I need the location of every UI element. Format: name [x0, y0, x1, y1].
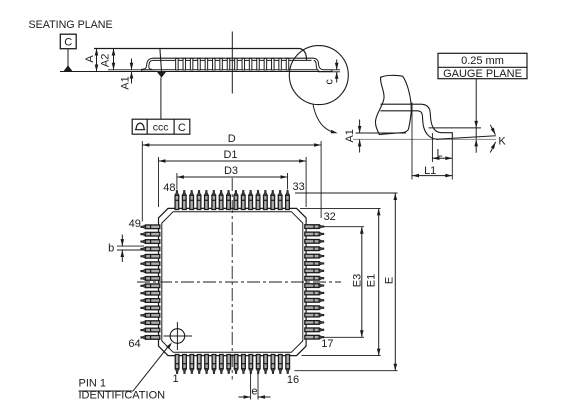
svg-text:16: 16 [287, 374, 299, 386]
gauge plane leader [475, 79, 477, 153]
dimension L [431, 133, 433, 162]
pin 1 leader arrow [79, 390, 134, 392]
pins 32-17 right side [305, 225, 324, 339]
detail lead outline [381, 104, 453, 139]
side view right end lead [314, 58, 332, 72]
pins 1-16 bottom side [175, 355, 289, 374]
top view vertical centerline [231, 178, 233, 380]
dimension E [295, 192, 398, 194]
dimension E3 [323, 226, 365, 228]
svg-text:ccc: ccc [153, 122, 169, 134]
svg-text:L: L [436, 148, 442, 160]
svg-text:49: 49 [129, 218, 141, 230]
svg-text:GAUGE PLANE: GAUGE PLANE [443, 68, 522, 80]
dimension D [141, 141, 143, 222]
side view body bottom line [146, 69, 318, 71]
seating plane line [60, 71, 332, 73]
top view horizontal centerline [137, 281, 341, 283]
svg-text:A1: A1 [344, 129, 356, 142]
svg-text:A2: A2 [99, 54, 111, 67]
ccc datum triangle [157, 72, 166, 78]
svg-text:c: c [323, 79, 335, 85]
dimension A1 side view [131, 59, 133, 70]
detail body blob [375, 75, 411, 134]
svg-text:L1: L1 [424, 165, 436, 177]
svg-text:A1: A1 [119, 76, 131, 89]
svg-text:D3: D3 [224, 165, 238, 177]
dimension D3 [176, 173, 178, 190]
package body inner edge [162, 212, 303, 353]
svg-text:17: 17 [321, 338, 333, 350]
dimension D1 [158, 157, 160, 207]
dimension e [250, 373, 252, 400]
package body outline [159, 208, 307, 355]
svg-text:E1: E1 [366, 274, 378, 287]
gauge plane box [438, 53, 527, 78]
svg-text:IDENTIFICATION: IDENTIFICATION [79, 390, 166, 402]
datum C leader and triangle [67, 49, 69, 66]
pins 48-33 top side [175, 191, 289, 210]
dimension K [490, 125, 495, 135]
svg-text:1: 1 [172, 373, 178, 385]
dimension L1 [411, 103, 413, 180]
dimension A1 detail [356, 132, 407, 134]
side view left end lead [142, 58, 156, 71]
svg-text:0.25 mm: 0.25 mm [461, 55, 504, 67]
svg-text:C: C [64, 37, 72, 49]
svg-text:SEATING PLANE: SEATING PLANE [29, 19, 113, 31]
side view lead ticks [176, 58, 179, 70]
detail leader arrow [313, 104, 334, 132]
dimension b [117, 245, 144, 247]
dimension E1 [300, 207, 381, 209]
svg-text:32: 32 [324, 211, 336, 223]
svg-text:D: D [228, 133, 236, 145]
svg-text:A: A [84, 55, 96, 63]
foot bottom tilted line [436, 136, 496, 140]
dimension A2 [108, 69, 146, 71]
side view package top line [94, 49, 307, 61]
side view body left end face [160, 49, 162, 72]
gauge plane line [429, 127, 482, 129]
dimension c [336, 60, 338, 70]
svg-text:D1: D1 [223, 149, 237, 161]
side view lead shoulder lines [153, 57, 314, 59]
pins 49-64 left side [141, 225, 160, 339]
svg-text:K: K [498, 135, 506, 147]
svg-text:PIN 1: PIN 1 [79, 378, 107, 390]
side view centerline [231, 32, 233, 94]
ccc leader line [160, 78, 162, 120]
lead thickness extension lines [332, 69, 340, 71]
svg-text:C: C [178, 122, 186, 134]
datum C symbol box [60, 34, 76, 49]
svg-text:E3: E3 [351, 274, 363, 287]
dimension A [96, 49, 98, 72]
detail circle [289, 46, 348, 105]
svg-text:b: b [108, 243, 114, 255]
flatness symbol [135, 123, 145, 130]
svg-text:E: E [384, 277, 396, 284]
ccc feature control frame [132, 119, 190, 134]
svg-text:33: 33 [292, 181, 304, 193]
pin 1 identification circle [170, 329, 185, 344]
svg-text:e: e [251, 385, 257, 397]
svg-text:64: 64 [128, 338, 140, 350]
svg-text:48: 48 [163, 182, 175, 194]
detail seating plane line [353, 138, 496, 140]
